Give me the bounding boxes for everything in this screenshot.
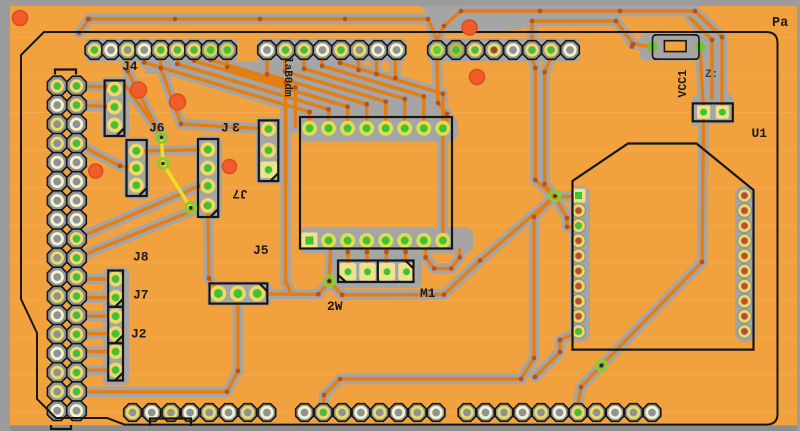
- svg-text:Pa: Pa: [772, 16, 788, 31]
- svg-text:M1: M1: [420, 286, 436, 301]
- svg-text:VCC1: VCC1: [677, 70, 690, 98]
- svg-text:J7: J7: [232, 186, 248, 201]
- svg-text:U1: U1: [752, 126, 768, 141]
- svg-text:J8: J8: [133, 250, 149, 265]
- svg-text:laB0dm: laB0dm: [281, 57, 293, 97]
- svg-text:Z:: Z:: [705, 69, 718, 81]
- svg-text:J2: J2: [131, 327, 147, 342]
- svg-text:J4: J4: [122, 59, 138, 74]
- svg-text:J: J: [221, 121, 229, 136]
- svg-text:J5: J5: [253, 243, 269, 258]
- svg-text:J7: J7: [133, 288, 149, 303]
- svg-text:2W: 2W: [327, 299, 343, 314]
- svg-text:3: 3: [232, 121, 240, 136]
